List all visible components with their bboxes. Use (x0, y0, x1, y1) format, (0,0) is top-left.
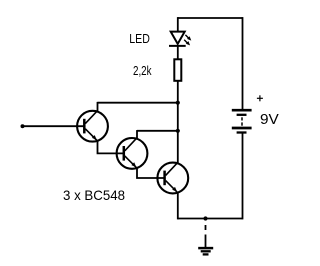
node junction dot Q2 collector (176, 129, 180, 133)
node junction dot below resistor (176, 101, 180, 105)
resistor R1 2,2k (174, 59, 181, 81)
wire Q2 collector rail (137, 130, 178, 132)
wire battery bottom (242, 133, 244, 220)
wire LED anode drop (177, 17, 179, 31)
svg-text:3 x BC548: 3 x BC548 (63, 188, 125, 203)
wire input to Q1 base (23, 125, 85, 127)
node input terminal dot (21, 124, 25, 128)
ground (198, 248, 213, 254)
transistor Q2 (117, 138, 148, 169)
svg-text:LED: LED (129, 31, 150, 46)
transistor Q3 (157, 162, 188, 193)
wire ground dash segment (205, 225, 207, 230)
node ground junction dot (203, 216, 207, 220)
transistor Q1 (77, 110, 108, 141)
wire top rail from LED anode to battery plus (178, 17, 243, 19)
wire ground drop (205, 235, 207, 248)
wire Q1 collector stub (97, 102, 99, 112)
svg-text:2,2k: 2,2k (133, 63, 152, 78)
wire battery top (242, 17, 244, 110)
wire LED cathode to resistor (177, 46, 179, 59)
LED D1 (169, 32, 191, 46)
label + (battery positive) (257, 95, 263, 101)
wire Q2 emitter to Q3 base (137, 168, 165, 178)
battery B1 9V (232, 110, 252, 132)
wire Q2 collector stub (136, 130, 138, 139)
wire resistor to Q3 collector (vertical bus) (177, 81, 179, 164)
wire Q1 collector rail (98, 102, 178, 104)
svg-text:9V: 9V (260, 112, 279, 128)
wire bottom rail (178, 218, 243, 220)
wire Q3 emitter to bottom rail (177, 193, 179, 220)
wire Q1 emitter to Q2 base (98, 141, 125, 154)
